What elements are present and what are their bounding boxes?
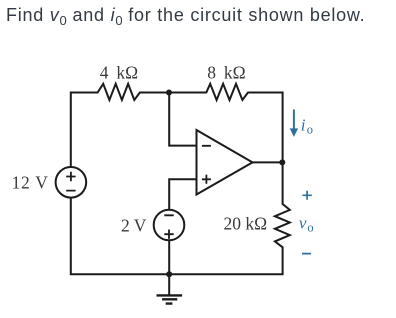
svg-text:12 V: 12 V <box>12 172 49 192</box>
svg-text:4 kΩ: 4 kΩ <box>100 62 138 82</box>
svg-text:v: v <box>299 214 307 233</box>
svg-text:2 V: 2 V <box>121 216 147 236</box>
svg-text:20 kΩ: 20 kΩ <box>224 213 268 233</box>
svg-text:o: o <box>307 221 313 235</box>
svg-text:o: o <box>307 123 313 137</box>
svg-text:i: i <box>301 116 306 135</box>
svg-text:8 kΩ: 8 kΩ <box>207 62 245 82</box>
